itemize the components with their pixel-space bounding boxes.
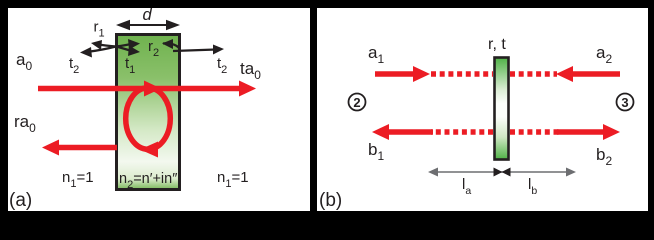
- t2 arrow (left, out of slab): [90, 47, 116, 52]
- a2 arrow (dashed + solid pointing left): [510, 71, 557, 77]
- la / lb distance arrows: [428, 168, 576, 177]
- svg-text:d: d: [143, 6, 153, 24]
- ra0 reflected red arrow (points left): [56, 145, 117, 151]
- interface arrows left: t1 arrows into slab: [116, 44, 132, 47]
- slab n2 rectangle: [117, 35, 180, 190]
- svg-text:2: 2: [353, 95, 360, 110]
- loop bottom arrowhead (pointing left): [140, 142, 158, 158]
- t2 right arrow (out of slab right): [173, 50, 216, 52]
- svg-text:(b): (b): [319, 190, 342, 211]
- bowtie at slab position: [494, 168, 503, 177]
- svg-text:(a): (a): [9, 190, 32, 211]
- d dimension arrow: [116, 20, 180, 30]
- b1 arrow (dashed from slab + solid pointing left): [431, 129, 493, 135]
- svg-text:3: 3: [621, 95, 628, 110]
- panel (b) white background: [317, 8, 648, 211]
- mid-slab arrowhead: [144, 81, 161, 97]
- r2 return arc arrow (pointing left inside slab): [163, 43, 180, 50]
- circled 3: [617, 94, 634, 111]
- a1 arrow (solid + dashed): [375, 71, 415, 77]
- svg-text:r, t: r, t: [488, 36, 506, 53]
- slab (b): [495, 58, 509, 160]
- panel (a) white background: [8, 8, 310, 211]
- circulating loop: [126, 88, 171, 149]
- a0 incident red arrow: [38, 86, 241, 92]
- b2 arrow (dashed from slab + solid pointing right): [510, 129, 559, 135]
- circled 2: [349, 94, 366, 111]
- r1 arc arrow (to upper-left): [99, 45, 116, 47]
